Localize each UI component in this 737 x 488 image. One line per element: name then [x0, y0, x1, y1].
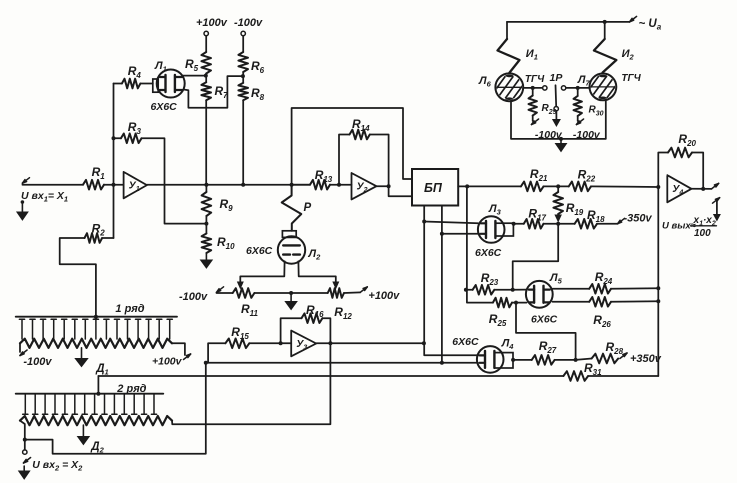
resistor R12 — [328, 288, 344, 298]
L3 anode tab — [495, 223, 513, 236]
svg-text:1 ряд: 1 ряд — [115, 303, 144, 315]
L2 cathode leads to R11 R12 wipers — [240, 261, 284, 286]
svg-text:+350v: +350v — [630, 353, 662, 365]
resistor R22 — [569, 182, 591, 192]
wire U1 output main — [147, 184, 310, 186]
wire L5 to R26 — [553, 301, 590, 303]
tube L5 6X6S — [526, 281, 553, 308]
node R5/R7/L1 anode — [204, 74, 208, 78]
node lamp bottom center — [559, 137, 563, 141]
output measure arrow — [713, 198, 720, 204]
wire R28 to +350v — [620, 353, 627, 359]
node R23 left — [464, 288, 468, 292]
wire to L3 upper pin — [424, 222, 478, 224]
svg-text:ТГЧ: ТГЧ — [525, 74, 545, 85]
wire R1 to U1 input — [104, 184, 124, 186]
row2 left lead down — [20, 421, 25, 440]
wire top Ua bus — [507, 21, 630, 23]
long bus A to L4 grid — [206, 362, 478, 364]
resistor R3 — [121, 134, 142, 144]
svg-text:+100v: +100v — [152, 356, 183, 368]
node R27/R28 — [574, 358, 578, 362]
svg-text:100: 100 — [694, 228, 711, 239]
row2 right lead to U3 column — [172, 343, 330, 424]
wire R2 left to diode row 1 bar — [60, 238, 96, 317]
wire -100v to R11 — [217, 292, 233, 294]
resistor R9 — [202, 192, 212, 216]
tube L2 6X6S — [278, 236, 305, 263]
wire R18 to -350v — [597, 223, 618, 225]
wire R8 down to main wire — [242, 100, 244, 184]
node center ground R11/R12 — [289, 291, 293, 295]
resistor R6 — [238, 52, 248, 72]
tube L3 6X6S — [478, 216, 505, 243]
svg-text:-100v: -100v — [234, 17, 263, 29]
resistor R18 — [575, 219, 597, 229]
svg-text:6X6C: 6X6C — [246, 245, 273, 257]
node row2 bar center — [96, 392, 100, 396]
switch 1P left contact — [543, 86, 547, 90]
svg-text:-350v: -350v — [624, 213, 653, 225]
svg-text:-100v: -100v — [179, 291, 208, 303]
wire R22 to U4 — [591, 185, 658, 188]
winding I2 — [604, 22, 606, 39]
resistor R20 feedback — [658, 153, 668, 188]
row1 center ground — [81, 348, 83, 360]
wire center to R12 — [291, 292, 328, 294]
row1 left lead to -100v — [19, 343, 21, 352]
wire L5 to R24 — [553, 288, 590, 290]
node row2 input — [23, 438, 27, 442]
resistor R29 — [532, 88, 534, 96]
wire U3 output — [316, 342, 424, 344]
row2 center ground — [82, 425, 84, 438]
op-amp U2 — [352, 173, 377, 199]
wire contact to L7 — [566, 87, 590, 89]
node U4 input — [656, 185, 660, 189]
node U4 output / R20 — [701, 187, 705, 191]
node U vx1 input terminal — [22, 178, 29, 184]
switch 1P arm — [555, 85, 558, 106]
L4 anode tab — [494, 353, 513, 368]
resistor R27 — [513, 359, 532, 361]
op-amp U1 — [124, 172, 147, 198]
node R26 column — [656, 299, 660, 303]
wire R23 to L5 node — [494, 289, 512, 291]
node U3 output / R16 / row2 column — [328, 341, 332, 345]
node U3 input — [279, 341, 283, 345]
wire U4 output — [691, 188, 711, 190]
row2 resistor chain — [20, 416, 172, 425]
row1 resistor chain — [20, 339, 172, 348]
resistor R2 — [85, 233, 103, 243]
node BP col2 / L3 lower wire — [440, 232, 444, 236]
wire R21 to R22 — [544, 185, 569, 187]
row1 diode teeth — [19, 318, 24, 320]
node BP output column — [465, 184, 469, 188]
node BP col2 / bus A — [440, 361, 444, 365]
node U2 output / R14 — [387, 184, 391, 188]
wire R4 left corner — [114, 83, 122, 85]
ground below lamp bus — [560, 139, 562, 145]
svg-text:+100v: +100v — [368, 290, 400, 302]
tube L1 6X6S — [153, 79, 158, 92]
node R24 column — [656, 286, 660, 290]
resistor R16 feedback — [281, 318, 302, 343]
switch 1P right contact — [561, 86, 565, 90]
resistor R5 — [201, 52, 211, 74]
wire R15 to U3 — [249, 342, 291, 344]
resistor R19 — [557, 186, 559, 192]
wire BP to R21 — [458, 185, 521, 187]
svg-text:БП: БП — [424, 181, 443, 195]
wire R24 to right column — [611, 287, 658, 290]
ground below U vx1 — [21, 200, 25, 204]
resistor R10 — [202, 234, 212, 254]
winding I1 — [506, 22, 508, 39]
wire input to R1 — [22, 184, 83, 186]
right column U4 input down to bus B — [657, 187, 659, 376]
ground below R10 — [205, 253, 207, 261]
node L3 tab / R17 — [512, 222, 516, 226]
node U1 input — [112, 183, 116, 187]
node I2 tap — [603, 20, 607, 24]
potentiometer P — [282, 185, 302, 231]
op-amp U3 — [291, 331, 316, 357]
wire L1 anode to R5/R7 junction — [182, 75, 206, 77]
wire R7 down through crossing to main wire — [205, 100, 207, 185]
node R23/L5/down-wire — [511, 288, 515, 292]
wire L6 bottom to L7 bottom — [511, 100, 606, 139]
svg-text:6X6C: 6X6C — [452, 336, 479, 348]
wire R15 left — [208, 343, 225, 363]
wire L1 lower pin to R6/R8 junction — [184, 76, 243, 108]
wire U2 output to BP block — [389, 186, 412, 196]
wire column to R25 — [467, 290, 493, 303]
wire R12 to +100v terminal — [344, 291, 360, 294]
node U2 input / R14 tap — [337, 183, 341, 187]
svg-text:ТГЧ: ТГЧ — [621, 73, 641, 84]
wire R3 left — [114, 137, 121, 139]
tube L4 6X6S — [477, 346, 504, 373]
terminal ~Ua — [630, 16, 637, 22]
wire BP output column down to R23 — [466, 186, 468, 289]
wire -100v to R6 — [242, 36, 244, 52]
resistor R7 — [201, 82, 211, 100]
node L4 tab / R27 — [511, 358, 515, 362]
bus B right to U4 column — [588, 375, 658, 377]
resistor R14 feedback — [339, 135, 350, 185]
node R6/R8 — [241, 74, 245, 78]
tube L2 top cap — [282, 231, 296, 238]
wire R17R18 junction down to L5 — [513, 224, 559, 290]
svg-text:1P: 1P — [550, 72, 564, 84]
wire R11 to center — [254, 292, 291, 294]
long bus B row2 to R31 — [98, 375, 563, 377]
node R3 tap — [112, 136, 116, 140]
resistor R28 — [576, 359, 592, 360]
resistor R1 — [83, 180, 104, 190]
wire U2 output — [376, 185, 388, 187]
node R5 column on main wire — [204, 183, 208, 187]
BP column 1 down to L4 — [424, 206, 477, 356]
output terminal — [712, 183, 719, 189]
wire R17 to R18 — [544, 223, 575, 225]
terminal U vx2 — [24, 440, 26, 450]
node U3 output / BP column — [422, 341, 426, 345]
wire R26 to right column — [611, 300, 658, 303]
node R17/R18/R19 — [556, 222, 560, 226]
block BP — [412, 169, 458, 206]
resistor R11 — [233, 288, 255, 298]
wire R2 right to input node — [102, 237, 113, 239]
op-amp U4 — [667, 175, 691, 202]
resistor R24 — [589, 284, 611, 294]
row1 top bar — [16, 316, 177, 318]
BP column 2 down to bus A — [441, 206, 443, 363]
lamp L7 TGCh — [590, 74, 617, 101]
wire main node up over to BP — [292, 108, 412, 185]
node row1 bar center — [94, 315, 98, 319]
node R21/R22/R19 — [556, 184, 560, 188]
svg-text:P: P — [304, 202, 312, 214]
resistor R30 — [577, 88, 579, 96]
wire +100v to R5 — [205, 36, 207, 52]
row2 diode teeth — [24, 394, 26, 415]
resistor R26 — [589, 297, 611, 307]
row1 right lead to +100v — [172, 343, 185, 355]
wire row2 bar up to long bus B — [97, 376, 99, 394]
resistor R13 — [310, 180, 330, 190]
resistor R17 — [514, 223, 524, 225]
resistor R25 — [493, 298, 512, 308]
resistor R4 — [122, 79, 140, 89]
row2 top bar — [16, 393, 164, 395]
resistor R31 on bus B — [563, 371, 588, 381]
wire R4 to L1 grid — [140, 83, 152, 85]
lamp L6 TGCh — [495, 73, 523, 101]
wire to L3 lower pin — [442, 233, 479, 235]
wire R27 to junction — [555, 359, 576, 361]
wire R25 node down to R27/R28 node — [516, 303, 576, 360]
node R9/R10 divider — [204, 222, 208, 226]
node R25/L5 lower — [514, 301, 518, 305]
resistor R8 — [238, 83, 248, 100]
vertical bus R4/R3/input node — [113, 84, 115, 239]
resistor R23 — [466, 289, 473, 291]
resistor R15 — [225, 339, 249, 349]
svg-text:6X6C: 6X6C — [475, 247, 502, 259]
wire step to bus A — [25, 363, 206, 454]
svg-text:6X6C: 6X6C — [531, 314, 558, 326]
node main wire / P pot — [290, 183, 294, 187]
wire R13 to U2 — [330, 184, 352, 186]
wire L6 to switch contact — [523, 87, 542, 89]
wire R3 right feedback down — [142, 138, 207, 223]
node R8 column on main wire — [241, 183, 245, 187]
svg-text:-100v: -100v — [23, 356, 52, 368]
switch 1P ground arrow — [555, 111, 557, 119]
node BP col1 / L3 anode wire — [422, 220, 426, 224]
svg-text:+100v: +100v — [196, 17, 228, 29]
node bus A / R15 — [204, 361, 208, 365]
ground below U vx2 — [23, 466, 25, 472]
svg-text:6X6C: 6X6C — [151, 101, 178, 113]
resistor R21 — [521, 182, 544, 192]
